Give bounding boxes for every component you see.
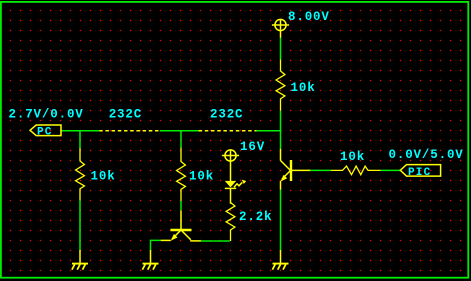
power symbol 8.00V	[272, 19, 289, 38]
svg-text:2.2k: 2.2k	[239, 210, 272, 224]
svg-text:232C: 232C	[109, 108, 142, 122]
wire Q2 collector to 2.2k resistor	[201, 240, 230, 242]
net flag PC	[30, 125, 61, 136]
wire PC flag to first dash (net 232C)	[61, 130, 99, 132]
svg-text:10k: 10k	[291, 81, 316, 95]
ground (middle, under Q2 emitter)	[142, 250, 158, 270]
net flag PIC	[400, 165, 440, 177]
transistor Q2 (middle NPN, rotated)	[161, 211, 201, 241]
svg-text:10k: 10k	[91, 170, 116, 184]
power symbol 16V	[222, 150, 239, 181]
resistor 2.2k	[226, 203, 235, 242]
resistor 10k middle (base divider)	[177, 148, 186, 201]
svg-text:232C: 232C	[210, 108, 243, 122]
svg-text:PIC: PIC	[408, 167, 431, 179]
wire top resistor to Q1 collector	[280, 111, 282, 149]
wire dashed segment 1 (net 232C)	[99, 130, 160, 132]
wire left R 10k to ground	[79, 200, 81, 251]
ground (left, under 10k)	[72, 250, 88, 270]
wire right 10k to PIC flag	[381, 169, 401, 171]
wire solid middle segment (net 232C)	[160, 130, 199, 132]
resistor 10k right (to PIC, horizontal)	[331, 166, 381, 175]
transistor Q1 (right NPN)	[281, 149, 311, 190]
svg-text:0.0V/5.0V: 0.0V/5.0V	[389, 148, 464, 162]
wire Q1 emitter to ground	[280, 190, 282, 250]
wire right solid segment to collector node	[257, 130, 282, 132]
svg-text:8.00V: 8.00V	[288, 10, 330, 24]
wire middle branch down to R 10k	[180, 131, 182, 148]
LED D1	[225, 180, 246, 204]
wire Q2 emitter to ground corner	[151, 240, 161, 250]
wire Q1 base to right 10k	[310, 169, 331, 171]
svg-text:PC: PC	[37, 126, 53, 138]
resistor 10k left (PC side)	[76, 148, 85, 200]
svg-text:2.7V/0.0V: 2.7V/0.0V	[9, 108, 84, 122]
resistor 10k top (pull-up to 8V)	[276, 60, 285, 111]
wire left branch down to R 10k	[79, 131, 81, 148]
wire dashed segment 2 (net 232C)	[199, 130, 257, 132]
svg-text:16V: 16V	[240, 140, 265, 154]
wire middle R 10k to Q base	[180, 201, 182, 211]
wire 8V supply to top resistor	[280, 38, 282, 60]
svg-text:10k: 10k	[340, 150, 365, 164]
ground (right, under Q1 emitter)	[272, 250, 288, 270]
svg-text:10k: 10k	[189, 170, 214, 184]
